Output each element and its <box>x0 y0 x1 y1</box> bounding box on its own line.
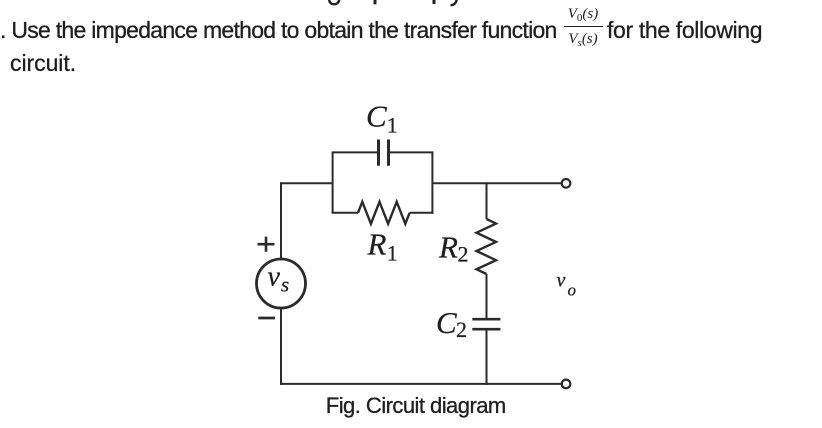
descender fragment g <box>329 0 339 4</box>
fraction Vo(s)/Vs(s) <box>564 7 603 49</box>
wire top-right horizontal <box>432 182 561 184</box>
wire top-left horizontal <box>280 182 333 184</box>
svg-text:R: R <box>438 230 458 265</box>
wire R2 branch top <box>486 182 488 219</box>
descender fragment y <box>451 0 458 5</box>
voltage source vs circle <box>257 259 306 308</box>
terminal bottom-right <box>562 380 571 389</box>
svg-text:o: o <box>568 280 577 299</box>
svg-text:2: 2 <box>456 317 467 342</box>
plus sign <box>258 237 275 252</box>
svg-text:v: v <box>268 261 281 292</box>
problem text line 1 <box>0 17 557 44</box>
capacitor C1 plates <box>379 140 389 166</box>
wire box bottom left stub <box>332 212 358 214</box>
figure caption <box>326 393 506 419</box>
wire R2 to C2 <box>486 274 488 318</box>
svg-text:v: v <box>557 270 566 292</box>
svg-text:s: s <box>281 272 289 296</box>
problem text line 1 tail <box>607 17 762 44</box>
wire left vertical lower <box>280 308 282 385</box>
wire box bottom right stub <box>410 212 434 214</box>
descender fragment p <box>374 0 377 4</box>
svg-text:C: C <box>366 99 387 134</box>
wire left vertical upper <box>280 182 282 259</box>
capacitor C2 plates <box>472 319 500 329</box>
wire box top left segment <box>332 151 377 153</box>
svg-text:1: 1 <box>387 113 398 138</box>
svg-text:C: C <box>436 305 457 340</box>
svg-text:2: 2 <box>458 242 469 267</box>
descender fragment p2 <box>433 0 436 4</box>
parallel box left edge <box>332 152 334 212</box>
wire box top right segment <box>390 151 433 153</box>
problem text line 2 <box>10 50 76 77</box>
wire C2 to bottom <box>486 330 488 385</box>
minus sign <box>258 317 275 320</box>
svg-text:R: R <box>367 227 387 262</box>
wire bottom horizontal <box>280 383 562 385</box>
parallel box right edge <box>431 152 433 213</box>
resistor R2 zigzag <box>477 219 497 274</box>
resistor R1 zigzag <box>358 202 410 224</box>
terminal top-right <box>562 179 571 188</box>
svg-text:1: 1 <box>387 240 398 265</box>
